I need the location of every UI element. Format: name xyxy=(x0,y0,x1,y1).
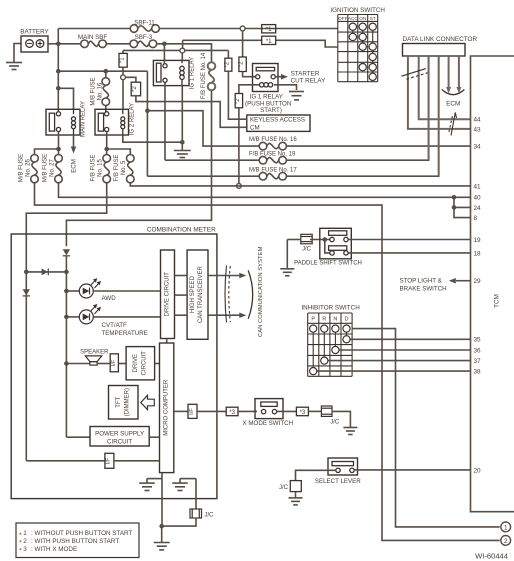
svg-text:SBF-11: SBF-11 xyxy=(134,20,155,27)
svg-text:ECM: ECM xyxy=(446,101,460,108)
fuse F/B No. 15 xyxy=(106,149,108,155)
svg-text:TEMPERATURE: TEMPERATURE xyxy=(102,330,148,337)
twisted pair (ECM-TCM rows) xyxy=(451,113,457,136)
svg-text:POWER SUPPLY: POWER SUPPLY xyxy=(95,430,144,437)
wire top feed to SBF-11 xyxy=(58,28,130,30)
relay IG 1 RELAY (PUSH BUTTON START) xyxy=(253,64,279,92)
svg-text:*2: *2 xyxy=(224,61,230,67)
wire inhibitor common to circled1 xyxy=(352,329,500,527)
svg-text:44: 44 xyxy=(474,117,482,124)
LED CVT/ATF xyxy=(79,310,93,324)
alt box *1 (ignition ON feed) xyxy=(182,40,184,48)
box I/F (speaker) xyxy=(110,354,118,372)
LED AWD xyxy=(79,284,93,298)
wire DLC pin1 to TCM 43 xyxy=(408,56,471,129)
block arrow (TFT data) xyxy=(141,395,155,409)
wire IG1 relay pin feed xyxy=(163,44,165,64)
node fuse 15/5 junction xyxy=(104,147,109,152)
wire fuse17 to DLC xyxy=(286,56,438,176)
wire drive1 to micro xyxy=(166,339,168,344)
relay IG 1 RELAY xyxy=(153,60,189,85)
svg-text:43: 43 xyxy=(474,126,482,133)
wire to fuse 5 xyxy=(107,149,131,155)
twisted pair (CAN) xyxy=(225,266,227,323)
svg-text:*2: *2 xyxy=(235,98,241,104)
wire CVT LED to drive circuit xyxy=(93,316,160,318)
wire L1 to I/F bottom xyxy=(26,460,105,462)
svg-text:: WITH X MODE: : WITH X MODE xyxy=(31,546,77,553)
legend box xyxy=(16,523,139,558)
svg-text:COMBINATION METER: COMBINATION METER xyxy=(147,226,216,233)
wire MAIN SBF to SBF-3 xyxy=(106,43,130,45)
fuse F/B No. 5 xyxy=(128,162,133,175)
alt box *1 (IG2 coil feed) xyxy=(122,50,124,53)
svg-text:*1: *1 xyxy=(266,38,272,45)
svg-text:KEYLESS ACCESS: KEYLESS ACCESS xyxy=(250,117,305,124)
node L1/L2 link left xyxy=(24,270,29,275)
svg-text:DRIVE: DRIVE xyxy=(133,354,139,372)
connector circled 2 xyxy=(501,536,511,546)
svg-text:*3: *3 xyxy=(229,410,235,416)
wire I/F to drive circuit 2 xyxy=(118,363,126,365)
alt box *1 (ignition ACC feed) xyxy=(262,25,276,33)
connector circle on pin41 row xyxy=(237,184,242,189)
svg-text:MICRO COMPUTER: MICRO COMPUTER xyxy=(164,379,170,436)
wire main relay coil feed xyxy=(58,88,73,109)
wire *2#3 down to pin41 row xyxy=(238,108,240,184)
fuse SBF-3 xyxy=(138,41,150,46)
wire IG2 coil ground run xyxy=(123,135,183,142)
wire paddle to ground xyxy=(286,240,288,269)
svg-text:38: 38 xyxy=(474,369,482,376)
wire L2 vertical xyxy=(65,256,67,437)
box MICRO COMPUTER xyxy=(160,343,174,473)
ground (select lever) xyxy=(289,497,303,499)
svg-text:I/F: I/F xyxy=(111,359,117,366)
svg-text:HIGH SPEED: HIGH SPEED xyxy=(190,275,196,313)
wire AWD LED to drive circuit xyxy=(93,290,160,292)
node y71/fuse16 xyxy=(104,69,109,74)
svg-text:29: 29 xyxy=(474,278,482,285)
svg-text:ST: ST xyxy=(370,16,376,21)
svg-text:CAN TRANSCEIVER: CAN TRANSCEIVER xyxy=(198,265,204,323)
node coils ground xyxy=(180,140,185,145)
wire to CVT LED xyxy=(66,316,79,318)
svg-text:No. 26: No. 26 xyxy=(26,159,32,177)
ground (paddle) xyxy=(280,268,294,270)
svg-text:8: 8 xyxy=(474,215,478,222)
wire *1 to connector xyxy=(122,67,124,75)
svg-text:CUT RELAY: CUT RELAY xyxy=(291,77,327,84)
svg-text:: WITH PUSH BUTTON START: : WITH PUSH BUTTON START xyxy=(31,538,119,545)
svg-text:*1: *1 xyxy=(266,26,272,33)
fuse F/B No. 14 xyxy=(209,70,214,83)
wire connector to *2 box xyxy=(125,77,136,82)
switch X MODE SWITCH xyxy=(255,399,283,419)
svg-text:TFT: TFT xyxy=(116,396,122,407)
wire to AWD LED xyxy=(66,290,79,292)
wire J/C to ground xyxy=(295,492,297,498)
svg-text:J/C: J/C xyxy=(330,420,340,426)
wire to speaker xyxy=(66,363,89,365)
svg-text:MAIN SBF: MAIN SBF xyxy=(78,34,107,41)
wire SBF-11 to ignition switch xyxy=(159,28,337,30)
wire DLC pin2 to TCM 44 xyxy=(419,56,471,119)
wire battery y71 bus xyxy=(58,70,147,72)
node L1/L2 link right xyxy=(64,270,69,275)
wire PBS coil to ground xyxy=(274,85,297,90)
svg-text:CIRCUIT: CIRCUIT xyxy=(142,351,148,376)
svg-text:*1: *1 xyxy=(120,57,126,63)
alt box *3 (x mode 1) xyxy=(226,407,238,416)
wire DLC pin6 to ECM xyxy=(458,56,460,87)
junction connector J/C (meter) xyxy=(190,509,202,518)
wire *1 row to ignition ON xyxy=(276,40,338,47)
box DRIVE CIRCUIT xyxy=(161,250,175,339)
wire fuse14 to meter xyxy=(66,90,211,246)
wire speaker to I/F xyxy=(97,363,110,365)
svg-text:F/B FUSE: F/B FUSE xyxy=(91,154,97,181)
svg-text:F/B FUSE No. 19: F/B FUSE No. 19 xyxy=(249,151,296,157)
svg-text:M/B FUSE No. 16: M/B FUSE No. 16 xyxy=(249,137,297,143)
svg-text:1: 1 xyxy=(504,524,508,531)
svg-text:18: 18 xyxy=(474,250,482,257)
wire ground B to J/C xyxy=(195,479,197,509)
svg-text:(DIMMER): (DIMMER) xyxy=(125,388,131,416)
node fuse 26/27 junction xyxy=(56,147,61,152)
wire main bus to MAIN SBF xyxy=(58,43,80,45)
wire inhibitor row 35 xyxy=(347,338,471,340)
wire paddle up to TCM pin 19 xyxy=(348,239,470,241)
wire micro to I/F right xyxy=(174,410,188,412)
svg-text:OFF: OFF xyxy=(338,16,347,21)
svg-text:DRIVE CIRCUIT: DRIVE CIRCUIT xyxy=(165,272,171,317)
svg-text:F/B FUSE No. 14: F/B FUSE No. 14 xyxy=(201,52,207,99)
box DRIVE CIRCUIT (speaker) xyxy=(126,347,155,380)
relay IG 2 RELAY xyxy=(95,109,129,135)
wire drive-can link 2 xyxy=(175,294,188,296)
svg-text:M/B FUSE: M/B FUSE xyxy=(43,154,49,182)
wire L1 vertical xyxy=(25,270,27,461)
wire to fuse 26 xyxy=(35,149,59,155)
svg-text:CAN COMMUNICATION SYSTEM: CAN COMMUNICATION SYSTEM xyxy=(258,246,264,337)
twisted pair (DLC) xyxy=(402,69,426,77)
arc ECM xyxy=(442,90,465,95)
svg-text:START): START) xyxy=(260,107,282,114)
node IG1 relay feed xyxy=(162,42,167,47)
wire micro to ground A xyxy=(161,473,163,479)
diode (meter feed L2) xyxy=(63,249,70,255)
inhibitor column links xyxy=(312,329,314,372)
wire drive-can link 1 xyxy=(175,275,188,277)
wire paddle common link xyxy=(325,240,330,253)
svg-text:J/C: J/C xyxy=(302,247,312,253)
svg-text:INHIBITOR SWITCH: INHIBITOR SWITCH xyxy=(301,304,360,311)
box TFT (DIMMER) xyxy=(109,386,139,420)
alt box *2 (keyless feed) xyxy=(131,82,140,96)
switch SELECT LEVER xyxy=(328,458,358,475)
svg-text:No. 27: No. 27 xyxy=(50,159,56,177)
svg-text:34: 34 xyxy=(474,144,482,151)
junction connector J/C (select lever) xyxy=(290,481,301,492)
svg-text:37: 37 xyxy=(474,358,482,365)
wire IG1 coil top xyxy=(181,53,183,60)
svg-text:MAIN RELAY: MAIN RELAY xyxy=(81,101,87,137)
svg-text:IG 2 RELAY: IG 2 RELAY xyxy=(130,103,136,135)
fuse M/B No. 16 (row) xyxy=(267,143,279,148)
wire battery to fuse17 drop xyxy=(146,71,148,176)
wire *3 to switch xyxy=(238,410,257,412)
svg-text:3: 3 xyxy=(23,546,27,553)
wire J/C to ground xyxy=(332,411,350,427)
svg-text:M/B FUSE: M/B FUSE xyxy=(91,77,97,105)
wire *2 to keyless xyxy=(136,96,247,128)
inhibitor switch table xyxy=(307,313,309,376)
node pin24 branch xyxy=(452,205,457,210)
svg-text:F/B FUSE: F/B FUSE xyxy=(114,154,120,181)
wire keyless alt feed *2#3 xyxy=(239,85,259,94)
wire select lever to TCM pin 20 xyxy=(354,469,470,471)
fuse M/B No. 27 xyxy=(58,149,60,155)
svg-text:J/C: J/C xyxy=(279,485,289,491)
junction connector J/C (paddle) xyxy=(301,234,312,244)
svg-text:*: * xyxy=(19,532,22,539)
svg-text:1: 1 xyxy=(23,530,27,537)
svg-text:TCM: TCM xyxy=(494,294,501,308)
wire *2#1 down xyxy=(228,71,246,119)
wire DLC pin4 down xyxy=(438,56,440,176)
wire main relay out xyxy=(58,132,60,149)
svg-text:20: 20 xyxy=(474,467,482,474)
fuse MAIN SBF xyxy=(88,41,98,46)
wire paddle feed xyxy=(287,239,300,241)
wire CAN L out xyxy=(208,314,240,316)
ground (meter C) xyxy=(161,526,163,542)
svg-text:35: 35 xyxy=(474,337,482,344)
svg-text:N: N xyxy=(333,317,337,323)
wire SBF-3 to F/B fuse 14 corner xyxy=(157,44,212,62)
svg-text:ON: ON xyxy=(359,16,366,21)
connector circle on SBF-11 line xyxy=(240,26,245,31)
wire L2 to power supply xyxy=(66,436,90,438)
svg-text:STOP LIGHT &: STOP LIGHT & xyxy=(400,278,443,285)
box TCM edge xyxy=(471,56,514,512)
wire fuse16 to TCM pin 34 xyxy=(286,145,470,147)
svg-text:I/F: I/F xyxy=(106,457,112,464)
svg-text:AWD: AWD xyxy=(102,295,117,302)
svg-text:*2: *2 xyxy=(132,86,138,92)
svg-text:STARTER: STARTER xyxy=(291,70,320,77)
svg-text:IG 1 RELAY: IG 1 RELAY xyxy=(190,57,196,89)
wire DLC pin3 down xyxy=(428,56,430,160)
alt box *2 (keyless/pin41) xyxy=(235,94,242,108)
svg-text:19: 19 xyxy=(474,237,482,244)
wire arrow to starter cut relay xyxy=(275,76,281,78)
wire to pin 24 xyxy=(454,206,471,208)
wire TCM pin 29 arrow xyxy=(456,280,471,282)
wire DLC pin5 to ECM xyxy=(448,56,450,87)
fuse SBF-11 xyxy=(138,26,152,31)
wire I/F to micro xyxy=(114,460,160,462)
wire IG1 out to fuse19 xyxy=(165,159,259,161)
wire branch pins 24/8 xyxy=(454,197,471,217)
ground (meter B) xyxy=(180,478,196,480)
wire *2#1 to keyless xyxy=(227,50,229,58)
box I/F (bottom) xyxy=(105,453,114,468)
svg-text:SBF-3: SBF-3 xyxy=(135,34,153,41)
svg-text:WI-60444: WI-60444 xyxy=(475,552,508,561)
svg-text:2: 2 xyxy=(23,538,27,545)
alt box *2 (keyless feed 1) xyxy=(225,58,232,71)
wire fuse5 to TCM pin 41 xyxy=(130,183,470,186)
wire inhibitor row 37 xyxy=(324,360,470,362)
svg-text:CIRCUIT: CIRCUIT xyxy=(107,438,132,445)
ignition contact column links xyxy=(352,27,354,37)
wire meter ground chain xyxy=(161,479,163,526)
node paddle common xyxy=(323,237,328,242)
fuse F/B No. 19 xyxy=(267,158,279,163)
wire fuse17 feed xyxy=(147,175,259,177)
svg-text:BRAKE SWITCH: BRAKE SWITCH xyxy=(400,285,447,292)
svg-text:DATA LINK CONNECTOR: DATA LINK CONNECTOR xyxy=(403,36,478,43)
alt box *2 (PBS relay feed) xyxy=(239,57,246,72)
box KEYLESS ACCESS CM xyxy=(247,115,310,131)
arc CAN communication system xyxy=(248,270,253,318)
wire J/C to paddle switch xyxy=(310,239,330,241)
svg-text:ECM: ECM xyxy=(71,159,78,173)
svg-text:*: * xyxy=(19,540,22,547)
switch PADDLE SHIFT SWITCH xyxy=(320,228,352,258)
svg-text:36: 36 xyxy=(474,347,482,354)
ignition switch table xyxy=(337,15,339,82)
relay MAIN RELAY xyxy=(46,109,80,135)
node battery y71 xyxy=(56,69,61,74)
wire SBF-11 tap to *2 xyxy=(242,31,244,57)
box DATA LINK CONNECTOR xyxy=(403,44,466,57)
node CVT branch xyxy=(64,315,69,320)
ground (battery) xyxy=(14,44,21,63)
ground (x mode) xyxy=(343,427,357,429)
node AWD branch xyxy=(64,289,69,294)
wire paddle down to TCM pin 18 xyxy=(348,252,470,254)
box COMBINATION METER xyxy=(11,234,217,499)
diode L1 to L2 xyxy=(28,271,64,273)
svg-text:2: 2 xyxy=(504,538,508,545)
ignition contact circles xyxy=(349,23,356,30)
wire connector down to IG2 coil xyxy=(122,80,124,110)
svg-text:I/F: I/F xyxy=(189,408,195,415)
connector circle IG2 coil xyxy=(121,75,126,80)
wire *3 to J/C xyxy=(308,410,321,412)
wire I/F to x mode switch xyxy=(197,410,226,412)
connector circled 1 xyxy=(501,522,511,532)
svg-text:No. 5: No. 5 xyxy=(121,160,127,175)
wire fuse19 to DLC xyxy=(286,56,428,160)
svg-text:J/C: J/C xyxy=(205,512,215,518)
svg-text:IG 1 RELAY: IG 1 RELAY xyxy=(250,94,283,101)
wire switch to *3 2 xyxy=(277,410,297,412)
wire *1/*2 feed line y50 xyxy=(123,49,228,51)
wire J/C to node xyxy=(162,518,196,526)
wire fuse26 to circled2 drop xyxy=(35,183,500,540)
svg-text:: WITHOUT PUSH BUTTON START: : WITHOUT PUSH BUTTON START xyxy=(31,530,132,537)
svg-text:SPEAKER: SPEAKER xyxy=(80,349,109,355)
wire fuse16 feed xyxy=(147,111,259,146)
wire inhibitor row 38 xyxy=(313,370,470,372)
ground (meter A) xyxy=(147,478,162,480)
svg-text:40: 40 xyxy=(474,195,482,202)
wire battery bus vertical xyxy=(57,29,59,113)
svg-text:D: D xyxy=(344,317,348,323)
svg-text:X MODE SWITCH: X MODE SWITCH xyxy=(243,420,294,427)
svg-text:*3: *3 xyxy=(300,410,306,416)
svg-text:M/B FUSE No. 17: M/B FUSE No. 17 xyxy=(249,167,297,173)
junction connector J/C (x mode) xyxy=(321,406,332,416)
svg-text:PADDLE SHIFT SWITCH: PADDLE SHIFT SWITCH xyxy=(294,260,362,266)
wire drive-can link 3 xyxy=(175,314,188,316)
wire fuse27 to TCM pin 40 xyxy=(59,183,471,197)
svg-text:BATTERY: BATTERY xyxy=(20,29,49,36)
wire IG1 relay output xyxy=(164,82,166,160)
node speaker branch xyxy=(64,361,69,366)
wire fuse15 to meter xyxy=(26,183,106,270)
svg-text:CVT/ATF: CVT/ATF xyxy=(102,322,128,329)
svg-text:24: 24 xyxy=(474,205,482,212)
svg-text:SELECT LEVER: SELECT LEVER xyxy=(315,478,361,485)
wire select lever to J/C xyxy=(296,470,336,480)
node battery junction xyxy=(56,42,61,47)
node pin40 branch xyxy=(452,195,457,200)
svg-text:41: 41 xyxy=(474,183,482,190)
wire IG1 coil to ground dot xyxy=(181,86,183,143)
alt box *3 (x mode 2) xyxy=(296,407,308,416)
svg-text:IGNITION SWITCH: IGNITION SWITCH xyxy=(330,7,385,14)
speaker xyxy=(85,356,102,362)
svg-text:P: P xyxy=(311,317,315,323)
inhibitor contact circles xyxy=(310,325,317,332)
svg-text:No. 16: No. 16 xyxy=(98,82,104,100)
fuse M/B No. 26 xyxy=(32,162,37,175)
svg-text:CM: CM xyxy=(250,124,260,131)
box HIGH SPEED CAN TRANSCEIVER xyxy=(187,250,208,339)
svg-text:*2: *2 xyxy=(239,61,245,67)
box I/F (x mode) xyxy=(188,404,197,418)
wire connector to *1 ignition feed xyxy=(183,39,262,41)
svg-text:M/B FUSE: M/B FUSE xyxy=(19,154,25,182)
battery B+ xyxy=(21,36,48,52)
wire battery to junction xyxy=(48,43,58,45)
svg-text:*: * xyxy=(19,548,22,555)
box POWER SUPPLY CIRCUIT xyxy=(90,427,149,447)
fuse M/B No. 17 xyxy=(267,174,279,179)
svg-text:ACC: ACC xyxy=(348,16,358,21)
wire inhibitor row 36 xyxy=(335,349,470,351)
svg-text:No. 15: No. 15 xyxy=(98,159,104,177)
node y88 junction xyxy=(56,86,61,91)
node meter ground node xyxy=(159,524,164,529)
wire CAN H out xyxy=(208,275,240,277)
wire power supply to micro xyxy=(149,436,159,438)
diode (L1 down) xyxy=(23,289,30,295)
ground (relay coils) xyxy=(181,142,183,150)
wire IG2 relay out xyxy=(106,132,108,149)
fuse M/B No. 16 (vertical) xyxy=(105,71,107,78)
wire ECM arrow from main relay coil xyxy=(73,135,75,148)
wire drive2 to micro xyxy=(155,363,160,365)
ground (PBS relay coil) xyxy=(289,91,304,93)
svg-text:R: R xyxy=(322,317,326,323)
node fuse16 feed tap xyxy=(145,108,150,113)
